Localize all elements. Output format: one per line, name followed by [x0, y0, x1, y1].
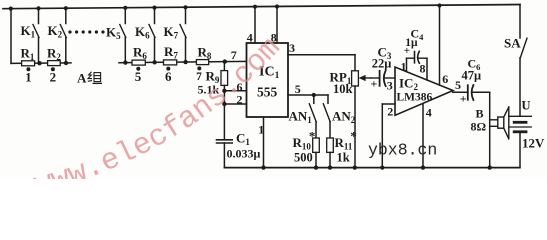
svg-text:+: + — [371, 77, 378, 91]
battery U 12V — [509, 116, 532, 167]
svg-text:ybx8.cn: ybx8.cn — [368, 141, 437, 160]
resistor R2 — [48, 61, 61, 66]
node junction dot pin5 AN1 — [312, 93, 316, 97]
capacitor C4 1u — [407, 51, 428, 63]
op-amp IC2 LM386 triangle — [395, 67, 453, 115]
wire LM386 pin1 stub — [406, 58, 408, 71]
svg-text:8: 8 — [420, 62, 426, 76]
wire LM386 pin5 output — [453, 91, 468, 93]
svg-text:5: 5 — [455, 78, 461, 92]
svg-text:6: 6 — [442, 72, 448, 86]
node junction dot chain K5 — [123, 60, 127, 64]
node junction dot chain K6 — [152, 60, 156, 64]
resistor R10 500 — [313, 138, 320, 170]
capacitor C3 22u — [371, 71, 395, 86]
resistor R8 — [196, 60, 208, 65]
node tap 2 dot — [51, 67, 55, 71]
wire LM386 pin6 Vcc — [437, 3, 441, 85]
wire 555 pin3 output — [288, 54, 355, 56]
wire 555 pin4 to bus — [253, 5, 257, 43]
speaker B 8ohm — [490, 107, 509, 139]
wire resistor chain right segment — [119, 61, 247, 62]
svg-text:47μ: 47μ — [462, 69, 482, 83]
resistor R7 — [164, 60, 177, 65]
wire left branch vertical — [10, 9, 12, 64]
capacitor C6 47u — [468, 85, 490, 100]
svg-text:1: 1 — [258, 123, 264, 137]
svg-text:U: U — [522, 99, 531, 113]
svg-text:6: 6 — [165, 69, 172, 84]
switch K5 — [120, 6, 128, 63]
svg-text:1: 1 — [25, 70, 32, 85]
wire 555 pin5 — [288, 94, 328, 96]
wire top supply bus — [3, 5, 520, 9]
svg-text:3: 3 — [289, 41, 295, 55]
svg-text:2: 2 — [387, 104, 393, 118]
svg-text:7: 7 — [196, 71, 202, 83]
switch K6 — [149, 6, 157, 63]
node junction dot pin6 — [222, 89, 226, 93]
node junction dot chain K2 — [64, 61, 68, 65]
svg-text:3: 3 — [387, 78, 393, 92]
node junction dot pin2 — [222, 102, 226, 106]
svg-text:+: + — [404, 45, 410, 57]
svg-text:1k: 1k — [337, 151, 350, 165]
svg-text:+: + — [460, 91, 467, 105]
svg-text:LM386: LM386 — [397, 91, 433, 103]
svg-text:B: B — [476, 107, 484, 121]
potentiometer RP1 10k — [352, 55, 359, 170]
capacitor C1 0.033u — [217, 140, 233, 143]
wire LM386 pin4 to ground — [421, 104, 425, 170]
svg-text:4: 4 — [426, 106, 432, 120]
switch K7 — [180, 5, 188, 62]
svg-text:0.033μ: 0.033μ — [227, 147, 261, 161]
node tap 7 dot — [197, 66, 201, 70]
node junction dot top bus left — [9, 7, 13, 11]
resistor R11 1k — [327, 138, 334, 170]
wire C1 down to ground bus — [223, 143, 225, 168]
wire bottom ground bus — [224, 167, 519, 169]
node ellipsis more branches — [68, 30, 104, 33]
node tap 1 dot — [26, 67, 30, 71]
svg-text:500: 500 — [294, 151, 313, 165]
resistor R1 — [22, 61, 35, 66]
label A-zu CJK glyph for group — [88, 72, 102, 84]
wire 555 pin6 — [224, 90, 246, 92]
switch AN1 — [309, 95, 316, 138]
switch K2 — [60, 6, 68, 63]
svg-text:SA: SA — [504, 36, 521, 51]
wire 555 pin2 — [224, 103, 246, 105]
wire 555 pin1 to ground — [261, 117, 265, 170]
node junction dot chain K1 — [37, 61, 41, 65]
wire LM386 pin2 to ground — [380, 104, 395, 170]
switch AN2 — [323, 95, 330, 138]
svg-text:4: 4 — [247, 31, 253, 45]
node junction dot chain K7 — [183, 60, 187, 64]
wire resistor chain left segment — [11, 62, 71, 65]
svg-text:8Ω: 8Ω — [471, 120, 487, 134]
svg-text:555: 555 — [257, 85, 278, 100]
wire 555 pin8 to bus — [275, 4, 279, 43]
svg-text:22μ: 22μ — [372, 57, 392, 71]
svg-text:5: 5 — [135, 69, 142, 84]
svg-text:12V: 12V — [522, 135, 545, 150]
switch K1 — [33, 6, 41, 63]
svg-text:A: A — [77, 71, 87, 86]
wire LM386 pin8 stub — [426, 58, 428, 80]
wire speaker column — [488, 92, 492, 170]
resistor R6 — [132, 60, 145, 65]
switch SA — [520, 5, 527, 116]
node tap 6 dot — [166, 67, 170, 71]
op-amp timer IC1 555 box — [247, 43, 289, 117]
svg-text:2: 2 — [50, 70, 57, 85]
wire RP1 wiper — [359, 75, 371, 81]
node tap 5 dot — [136, 67, 140, 71]
resistor R9 5.1k — [221, 62, 228, 91]
wire vertical pin6 to pin2 — [223, 91, 225, 104]
svg-text:1: 1 — [401, 59, 407, 73]
svg-text:10k: 10k — [333, 82, 353, 96]
svg-text:5: 5 — [295, 82, 301, 96]
wire pin2 node down to C1 — [223, 104, 225, 140]
node junction dot R9 top — [223, 59, 227, 63]
